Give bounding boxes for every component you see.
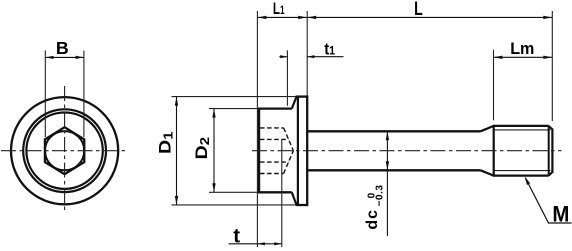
dimension B line [45, 56, 84, 58]
leader line for M [526, 178, 572, 223]
side view flange top edge [296, 95, 308, 97]
dimension L arrow left [307, 16, 316, 19]
svg-text:t: t [233, 225, 240, 248]
side view head left face [258, 108, 260, 194]
side view thread minor top line [495, 129, 551, 131]
dimension D1 top extension line [172, 96, 297, 98]
dimension D1 arrow bottom [175, 196, 178, 205]
dimension t1 right tail [307, 56, 343, 58]
hidden socket cone upper diagonal [284, 128, 294, 151]
dimension t1 extension line [286, 50, 288, 106]
side view head-to-flange chamfer top [292, 97, 297, 109]
side view thread major bottom edge [494, 174, 549, 176]
side view thread start face [493, 125, 495, 177]
dimension t1 arrow left [280, 55, 287, 58]
side view head-to-flange chamfer bottom [292, 192, 297, 205]
side view thread lead chamfer top [481, 126, 494, 131]
hidden hex socket upper outer line [260, 127, 284, 129]
side view thread end chamfer bottom [549, 172, 553, 176]
side view thread end face [551, 129, 553, 174]
svg-text:dc: dc [364, 209, 381, 230]
dimension Lm extension line [493, 50, 495, 121]
dimension t tail [229, 243, 282, 245]
dimension D2 arrow bottom [212, 183, 215, 192]
dimension D2 bottom extension line [209, 191, 258, 193]
dimension dc arrow bottom [386, 161, 389, 170]
side view thread lead chamfer bottom [481, 170, 494, 175]
hidden hex socket lower inner line [260, 161, 289, 163]
dimension L1 arrow left [257, 16, 266, 19]
side view thread end chamfer start [548, 126, 550, 176]
leader arrow for M [525, 176, 531, 185]
front view horizontal centerline [1, 150, 129, 152]
svg-text:−0.3: −0.3 [375, 185, 386, 207]
front view hex socket [45, 127, 84, 174]
dimension t arrow left [257, 242, 265, 245]
dimension Lm arrow left [494, 56, 503, 59]
dimension D2 line [213, 109, 215, 193]
dimension t extension line right [281, 140, 283, 248]
side view flange left face [297, 97, 299, 205]
hidden socket cone lower diagonal [284, 151, 294, 174]
dimension D1 arrow top [175, 97, 178, 106]
dimension Lm arrow right [543, 56, 552, 59]
extension line thread tip [551, 11, 553, 121]
side view thread minor bottom line [495, 170, 551, 172]
svg-text:M: M [552, 201, 569, 226]
hidden hex socket lower outer line [260, 173, 284, 175]
dimension B arrow right [76, 56, 84, 59]
front view vertical centerline [64, 86, 66, 213]
extension line flange right face [306, 11, 308, 96]
side view thread major top edge [494, 125, 549, 127]
dimension t1 left tail [279, 56, 287, 58]
dimension B extension line left [44, 51, 46, 138]
dimension D1 bottom extension line [172, 204, 297, 206]
dimension Lm line [494, 56, 553, 58]
dimension L1 line [257, 16, 307, 18]
side view shank top edge [307, 130, 480, 132]
dimension dc line [386, 131, 388, 236]
side view head bottom edge [258, 191, 292, 193]
side view horizontal centerline [252, 150, 562, 152]
side view thread end chamfer top [549, 126, 553, 130]
front view head outer circle (D1) [11, 97, 118, 204]
dimension L1 arrow right [298, 16, 307, 19]
dimension dc arrow top [386, 131, 389, 140]
dimension D1 line [176, 97, 178, 205]
dimension L line [307, 16, 552, 18]
dimension B arrow left [45, 56, 53, 59]
dimension t1 arrow right [307, 55, 314, 58]
svg-text:L1: L1 [273, 0, 285, 18]
side view head top edge [258, 107, 292, 109]
svg-text:L: L [414, 0, 423, 20]
dimension t arrow right [274, 242, 282, 245]
svg-text:Lm: Lm [510, 40, 534, 58]
side view shank bottom edge [307, 169, 480, 171]
front view socket cone circle [45, 131, 84, 170]
dimension D2 arrow top [212, 109, 215, 118]
hidden hex socket upper inner line [260, 138, 289, 140]
dimension B extension line right [83, 51, 85, 138]
extension line head left face [256, 11, 258, 247]
front view head cylinder circle (D2) [23, 109, 106, 192]
dimension L arrow right [543, 16, 552, 19]
front view head chamfer circle [26, 113, 102, 189]
svg-text:B: B [56, 38, 69, 58]
dimension D2 top extension line [209, 108, 258, 110]
side view flange right face [306, 96, 308, 207]
side view flange bottom edge [296, 204, 308, 206]
